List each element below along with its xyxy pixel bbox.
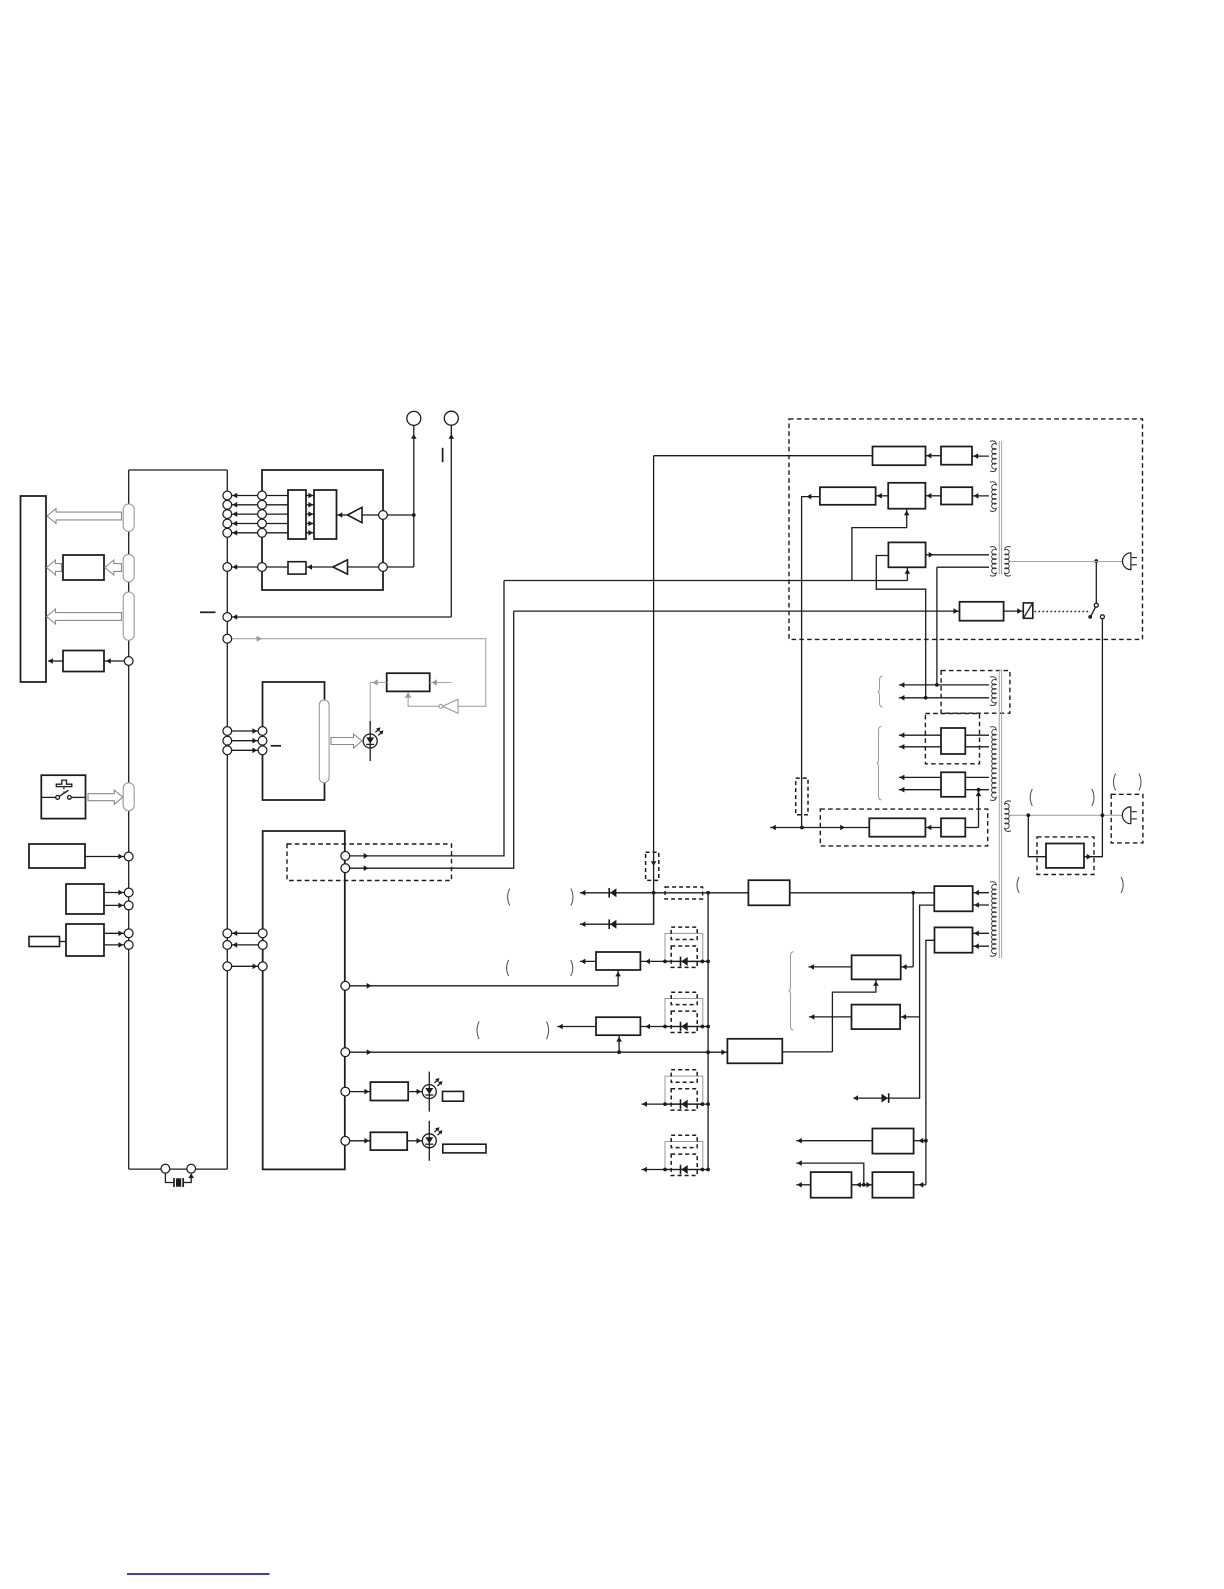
wire tx net b left	[899, 789, 941, 791]
arrow switch to bus	[88, 790, 123, 804]
node U2 pin row 1	[258, 727, 267, 736]
diode assembly row5	[663, 1070, 704, 1110]
wire data b across	[514, 610, 960, 612]
wire t2 row1b	[899, 697, 989, 699]
wire ringer right	[914, 1140, 926, 1142]
wire rx net a right	[965, 734, 989, 736]
node U2 pin row 2	[258, 736, 267, 745]
wire U3 to R-LED2	[350, 1140, 371, 1142]
block ringer driver	[872, 1129, 913, 1154]
wire row5 stub	[641, 1103, 708, 1105]
node U1 right pin a	[379, 511, 388, 520]
block handset rx network	[941, 728, 965, 754]
wire hybrid2 pin2	[854, 905, 935, 1098]
wire t2 row1a	[899, 684, 989, 686]
label box led2	[443, 1144, 486, 1153]
diode D2	[609, 888, 616, 898]
wire row1 link	[926, 455, 942, 457]
node U1 pin row 4	[258, 519, 267, 528]
block operation panel (tall)	[21, 496, 47, 682]
node U3 pin row 2	[258, 941, 267, 950]
connector pill on U2 edge	[319, 700, 329, 783]
node U3 data b	[341, 864, 350, 873]
connector CN4 (pill)	[123, 783, 134, 811]
wire tone left stub	[809, 1016, 852, 1018]
wire hook common	[1095, 561, 1097, 603]
block ringer volume	[811, 1172, 852, 1198]
node U1 right pin b	[379, 563, 388, 572]
node bus B row 4	[223, 519, 232, 528]
block speech mute	[727, 1039, 782, 1064]
wire U3 to R-LED1	[350, 1091, 371, 1093]
speaker SP1	[1123, 553, 1137, 570]
node row1 v-rail joint	[706, 891, 710, 895]
node row1 branch	[911, 891, 915, 895]
wire rx net b right	[965, 746, 989, 748]
wire amp2 bottom loop	[832, 979, 876, 1052]
diode assembly row4	[663, 992, 704, 1032]
wire v-rail	[707, 893, 709, 1170]
wire RING line	[450, 425, 452, 617]
dashed group modem data lines	[287, 844, 452, 881]
wire rx net a left	[899, 734, 941, 736]
wire bell stub row	[796, 1140, 872, 1142]
wire cpu long control line	[350, 1051, 728, 1053]
node t2 row1a joint	[935, 683, 939, 687]
node rail row5	[706, 1102, 710, 1106]
node U3 led2 pin	[341, 1136, 350, 1145]
block relay driver inner left	[288, 490, 306, 539]
wire speaker feed gray	[1009, 561, 1122, 563]
wire gate A1 output	[362, 514, 379, 516]
transformer T1 winding 2	[990, 482, 996, 512]
transformer T1 winding 3	[990, 547, 996, 576]
LED D1	[363, 721, 383, 761]
terminal TIP	[407, 411, 421, 425]
wire osc right stub gray	[430, 682, 452, 684]
wire hybrid bottom loop	[852, 509, 907, 581]
node sensor b	[124, 901, 133, 910]
wire earphone line gray	[1009, 814, 1122, 816]
wire bus top link	[129, 469, 228, 471]
dashed ferrite on tx drop	[796, 778, 808, 815]
node driver a	[124, 929, 133, 938]
dotted mechanical link	[1035, 611, 1091, 613]
paren pair lower	[1017, 877, 1019, 893]
node crystal pin 2	[187, 1164, 196, 1173]
node bus B (second vertical net)	[226, 470, 228, 1169]
wire ring det bottom	[617, 970, 619, 986]
wire ringer link	[852, 1184, 873, 1186]
block LCD driver	[63, 555, 104, 580]
terminal RING	[444, 411, 458, 425]
node bus B u3 row 3	[223, 962, 232, 971]
node bus B u2 row 3	[223, 746, 232, 755]
node rail row4	[706, 1025, 710, 1029]
block rx amp	[941, 447, 972, 465]
brace winding group 1	[878, 676, 883, 707]
block hybrid 2	[934, 886, 972, 911]
resistor R1	[370, 1082, 408, 1100]
node U2 pin row 3	[258, 746, 267, 755]
wire TIP line	[413, 425, 415, 567]
block handset tx network	[941, 772, 965, 797]
block ring detector	[596, 952, 640, 970]
brace handset group	[789, 952, 794, 1030]
wire diode row 2	[580, 893, 654, 924]
wire line bus row 5	[232, 532, 288, 534]
block tx modulator	[820, 487, 876, 505]
wire row3 stub	[580, 960, 596, 962]
node amp tx joint	[800, 826, 804, 830]
inverter gate A2	[306, 566, 333, 568]
wire row6 bus to block	[232, 566, 288, 568]
wire RING to bus node	[232, 616, 452, 618]
node on bus A at key scan row	[124, 657, 133, 666]
LED D4	[422, 1072, 442, 1112]
node sensor a	[124, 888, 133, 897]
wire U2 pin row 3	[232, 749, 258, 751]
block rx filter	[873, 447, 926, 466]
block memory backup	[29, 844, 85, 868]
wire row3 to rail	[640, 960, 708, 962]
wire row1 to coil	[972, 455, 989, 457]
wire speech network control (gray)	[232, 639, 486, 707]
wire bottom bus link with crystal taps	[129, 1168, 228, 1170]
block tone gen	[852, 1005, 901, 1030]
node control dialer joint	[617, 1050, 621, 1054]
node bus B row 5	[223, 528, 232, 537]
wire line bus row 2	[232, 504, 288, 506]
block sensor PCB	[66, 884, 104, 914]
node U3 data a	[341, 852, 350, 861]
diode D6	[882, 1093, 889, 1103]
wire hook NC contact down	[1101, 619, 1103, 816]
label box led1	[443, 1091, 464, 1101]
node t2 row1b joint	[924, 696, 928, 700]
block dial pulse driver	[960, 602, 1004, 621]
wire row2 to coil	[972, 495, 989, 497]
dashed box on row 1	[665, 887, 703, 899]
block line monitor	[888, 542, 925, 567]
wire row2 link a	[876, 495, 889, 497]
wire U2 pin row 2	[232, 740, 258, 742]
node bus B row 3	[223, 510, 232, 519]
diode D3	[609, 919, 616, 929]
resistor R2	[370, 1132, 407, 1150]
dashed group mic amp	[820, 809, 987, 846]
wire hybrid2 coil b	[973, 904, 989, 906]
node bus B u3 row 2	[223, 941, 232, 950]
node bus B u3 row 1	[223, 929, 232, 938]
transformer T2 core	[998, 669, 1000, 958]
bus arrow to panel (row 3)	[47, 609, 122, 624]
dashed group earphone	[1111, 794, 1143, 843]
dashed group handset rx	[925, 714, 979, 764]
wire amp2 left stub	[808, 966, 851, 968]
diode assembly row3	[663, 927, 704, 967]
wire bell coil b	[973, 945, 990, 947]
transformer T2 winding 2	[990, 727, 996, 801]
node U3 led1 pin	[341, 1087, 350, 1096]
wire U3 left pin row 3	[232, 965, 259, 967]
wire osc left to LED gray	[370, 683, 387, 726]
wire amp2 right	[901, 966, 914, 968]
node rail row6	[706, 1168, 710, 1172]
IC U3 main CPU	[263, 831, 345, 1169]
node U1 pin row 6	[258, 563, 267, 572]
wire row1 to hybrid2	[790, 892, 935, 894]
wire tone right joint	[900, 1016, 920, 1018]
paren pair row4	[477, 1022, 479, 1040]
wire row2 link b	[925, 495, 941, 497]
wire R1 to LED2	[408, 1091, 422, 1093]
wire row6 stub	[641, 1169, 708, 1171]
paren pair earphone top	[1114, 774, 1116, 791]
transformer T2 winding 1	[990, 677, 996, 706]
wire monitor left loop	[876, 556, 925, 698]
connector CN2 (pill)	[123, 554, 134, 582]
wire attenuator out	[1084, 815, 1102, 856]
wire cpu to ring det	[350, 985, 618, 987]
wire module link	[60, 941, 67, 943]
node bus A backup	[124, 852, 133, 861]
wire filter out	[965, 827, 978, 829]
wire driver b	[104, 944, 124, 946]
wire bell left drop	[926, 940, 935, 1185]
wire attenuator loop	[1028, 815, 1046, 856]
bus arrow to panel (row 1)	[47, 509, 122, 524]
arrow U2 to LED1	[331, 734, 362, 748]
transformer T1 core	[998, 441, 1000, 575]
wire U2 pin row 1	[232, 730, 258, 732]
component varistor	[1023, 603, 1033, 618]
wire node to key scan	[104, 660, 124, 662]
node U1 pin row 3	[258, 510, 267, 519]
wire line bus row 3	[232, 513, 288, 515]
wire tx net a right	[965, 776, 989, 778]
node bus B row 6	[223, 563, 232, 572]
wire key scan to panel	[48, 660, 63, 662]
battery contact icon	[56, 780, 72, 787]
paren pair row1	[508, 889, 510, 906]
block line relay	[748, 880, 789, 905]
transformer T1 winding 4	[1005, 547, 1011, 576]
IC U1 line interface box	[262, 470, 383, 590]
diode assembly row6	[663, 1135, 704, 1175]
block oscillator ceramic	[387, 673, 430, 691]
buffer gate gray	[443, 699, 458, 713]
label dash inside U2	[271, 745, 281, 747]
wire sensor b	[104, 904, 124, 906]
wire pin a to tip line	[387, 514, 413, 516]
node U1 pin row 2	[258, 500, 267, 509]
node earphone joint b	[1101, 813, 1105, 817]
node row1 drop joint	[652, 891, 656, 895]
transformer T2 winding 4 (earphone)	[1005, 801, 1011, 831]
block motor driver	[66, 924, 104, 956]
IC U2 display controller	[263, 682, 325, 800]
switch dashed link	[63, 788, 65, 793]
block pulse dialer	[596, 1017, 640, 1035]
hyperlink underline	[127, 1573, 270, 1575]
node U1 pin row 1	[258, 491, 267, 500]
node ringer rail joint	[924, 1139, 928, 1143]
transformer T1 winding 1	[990, 441, 996, 472]
block tx amp	[941, 487, 972, 504]
wire driver a	[104, 932, 124, 934]
node U3 pin row 3	[258, 962, 267, 971]
transformer T2 winding 3	[990, 882, 996, 957]
polarity tick	[442, 448, 444, 462]
wire line bus row 1	[232, 495, 288, 497]
wire R2 to LED3	[407, 1140, 422, 1142]
node driver b	[124, 941, 133, 950]
wire row4 to rail	[640, 1026, 708, 1028]
block ringer sounder	[872, 1172, 913, 1198]
wire diode row 1	[580, 892, 749, 894]
node control rail joint	[706, 1050, 710, 1054]
connector CN1 (pill)	[123, 504, 134, 531]
wire rx line row1	[654, 455, 873, 457]
wire monitor to coil	[926, 554, 989, 556]
node U3 pin row 1	[258, 929, 267, 938]
LED D5	[422, 1121, 442, 1161]
wire buffer output gray	[408, 693, 439, 707]
wire mute to loop	[782, 1051, 832, 1053]
node U3 ring pin	[341, 981, 350, 990]
block bell network	[935, 927, 973, 952]
switch contacts	[41, 796, 55, 798]
dashed ferrite on drop	[646, 852, 659, 880]
inverter gate A1	[337, 514, 348, 516]
paren pair row3	[507, 960, 509, 976]
wire bell coil a	[973, 932, 990, 934]
switch hook lever	[1088, 615, 1092, 619]
wire coil lower tap	[937, 566, 989, 568]
dashed group attenuator	[1037, 837, 1094, 875]
wire mid stub row	[796, 1163, 864, 1185]
wire long drop from rx row	[653, 456, 655, 925]
block line transformer inner right	[314, 490, 337, 539]
wire gate A2 output	[348, 566, 379, 568]
node rail row3	[706, 960, 710, 964]
node bus B u2 row 2	[223, 736, 232, 745]
wire data line b	[350, 611, 514, 868]
wire coil tap drop	[936, 567, 938, 685]
block power switch SW1	[41, 775, 85, 818]
wire amp riser	[978, 790, 980, 828]
block attenuator	[1046, 844, 1084, 868]
node earphone joint a	[1026, 813, 1030, 817]
dashed group t2 row1	[941, 671, 1010, 714]
node bus A (main left vertical net)	[128, 470, 130, 1169]
dashed group telephone line unit	[789, 419, 1143, 640]
block amp2	[852, 955, 901, 979]
wire hybrid2 coil a	[973, 892, 989, 894]
wire amp row stub	[770, 827, 869, 829]
wire branch to amp2	[912, 893, 914, 967]
wire U3 left pin row 1	[232, 932, 259, 934]
block key scan	[63, 651, 104, 672]
node bus B gray row	[223, 634, 232, 643]
node amp riser joint	[977, 788, 981, 792]
crystal X1	[165, 1173, 174, 1182]
wire U3 left pin row 2	[232, 944, 259, 946]
node hook common joint	[1094, 559, 1098, 563]
wire dialer bottom	[618, 1035, 620, 1052]
wire tx net a left	[899, 776, 941, 778]
node mid drop joint	[862, 1183, 866, 1187]
node U1 pin row 5	[258, 528, 267, 537]
connector CN3 (pill)	[123, 592, 134, 640]
wire backup to bus	[85, 856, 124, 858]
block hybrid	[888, 483, 925, 509]
wire data line a	[350, 581, 504, 856]
wire bottom stub	[796, 1184, 810, 1186]
arrow bus to LCD	[105, 560, 122, 575]
node bus B ring row	[223, 613, 232, 622]
wire tx net b right	[965, 789, 989, 791]
wire line bus row 4	[232, 523, 288, 525]
wire sounder right	[914, 1184, 926, 1186]
node crystal pin 1	[161, 1164, 170, 1173]
arrow LCD to panel	[47, 560, 62, 575]
block mic amp	[869, 818, 925, 836]
wire monitor bottom arrow	[906, 567, 908, 580]
wire amp link	[925, 827, 941, 829]
wire pin b to ring line	[387, 566, 413, 568]
wire data a across	[504, 580, 907, 582]
block hook detect small	[288, 562, 306, 574]
node U3 control pin	[341, 1048, 350, 1057]
node bus B u2 row 1	[223, 727, 232, 736]
wire tx left drop	[802, 497, 820, 828]
label dash left of node	[200, 611, 216, 613]
node bus B row 1	[223, 491, 232, 500]
wire driver to varistor	[1004, 610, 1024, 612]
brace winding group 2	[877, 726, 882, 800]
node bus B row 2	[223, 500, 232, 509]
wire sensor a	[104, 892, 124, 894]
paren pair attenuator	[1030, 789, 1032, 806]
block small module	[29, 937, 60, 947]
wire row4 stub	[557, 1026, 596, 1028]
earphone EP1	[1122, 807, 1136, 824]
block amp filter	[941, 818, 965, 836]
wire rx net b left	[899, 746, 941, 748]
